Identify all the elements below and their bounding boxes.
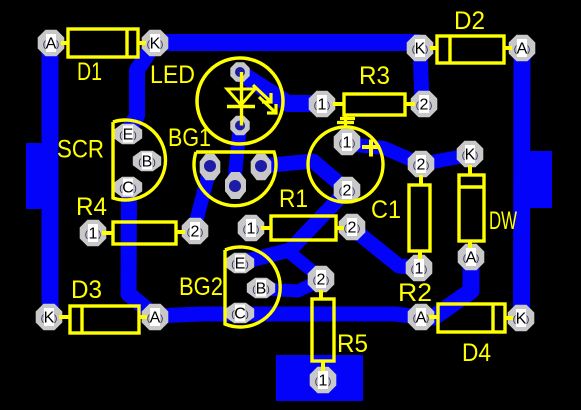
pad SCR C: [114, 177, 142, 197]
svg-text:2: 2: [420, 97, 429, 114]
wire R5 pin2 to BG2 B: [262, 280, 321, 291]
pin label R5 2: [316, 270, 326, 288]
wire top rail D1K to D2K: [154, 34, 420, 51]
resistor R5 body: [312, 299, 334, 361]
node bottom tab: [276, 355, 363, 401]
LED arrow 2: [259, 97, 276, 113]
node left edge tab: [26, 143, 50, 209]
wire C1 pin1 to R2 pin2: [347, 144, 421, 164]
wire C1 pin2 to BG2 E: [239, 190, 347, 263]
svg-text:): ): [267, 284, 270, 295]
pin label SCR B: [142, 153, 152, 170]
LED outline circle: [197, 58, 283, 144]
svg-text:BG2: BG2: [179, 273, 223, 301]
svg-text:E: E: [235, 256, 246, 273]
svg-text:): ): [426, 160, 429, 171]
wire bottom rail D3A to D4A: [155, 314, 421, 317]
svg-text:A: A: [150, 310, 161, 327]
pad D2 K: [407, 35, 434, 62]
capacitor C1 top mark: [337, 115, 355, 128]
svg-text:): ): [134, 183, 137, 194]
svg-text:D3: D3: [71, 276, 102, 304]
svg-text:A: A: [466, 250, 477, 267]
svg-text:2: 2: [317, 272, 326, 289]
pin label DW A: [466, 248, 476, 266]
svg-text:): ): [160, 39, 163, 50]
svg-text:): ): [327, 100, 330, 111]
pad BG1 right: [251, 154, 272, 180]
pad R3 2: [411, 91, 438, 118]
zener DW body: [459, 175, 484, 241]
svg-text:): ): [527, 44, 530, 55]
resistor R1 body: [271, 216, 336, 240]
svg-text:): ): [54, 313, 57, 324]
silkscreen labels: [57, 7, 517, 367]
diode D1 body: [68, 29, 138, 57]
wire DW A to D4 A: [421, 258, 471, 317]
resistor R2 body: [409, 185, 430, 251]
pin label BG2 C: [235, 305, 245, 322]
svg-text:1: 1: [89, 226, 98, 243]
pad LED cathode: [230, 116, 249, 135]
svg-text:2: 2: [417, 157, 426, 174]
pad BG2 B: [247, 278, 275, 298]
svg-text:A: A: [46, 36, 57, 53]
LED diode symbol: [240, 72, 243, 126]
pin label R4 1: [88, 224, 98, 242]
pad D3 A: [142, 304, 169, 331]
svg-text:B: B: [142, 154, 153, 171]
diode D3 body: [70, 306, 139, 333]
pad R4 2: [182, 218, 209, 245]
pad R1 2: [339, 214, 366, 241]
svg-text:2: 2: [343, 183, 352, 200]
svg-text:C: C: [234, 306, 246, 323]
svg-text:): ): [426, 313, 429, 324]
pad D4 K: [508, 305, 535, 332]
svg-text:K: K: [44, 310, 55, 327]
svg-text:K: K: [415, 41, 426, 58]
svg-text:): ): [256, 224, 259, 235]
pin label D2 A: [517, 39, 527, 57]
svg-text:): ): [526, 314, 529, 325]
pad R2 1: [406, 255, 433, 282]
pads: gray octagons: [36, 30, 536, 394]
svg-text:): ): [246, 259, 249, 270]
capacitor C1 plus mark: [362, 140, 380, 157]
pin label R3 2: [419, 95, 429, 113]
pad R5 1: [310, 367, 337, 394]
svg-text:): ): [98, 229, 101, 240]
svg-text:1: 1: [415, 261, 424, 278]
svg-text:): ): [424, 264, 427, 275]
pin label R2 2: [416, 155, 426, 173]
capacitor C1 outline: [308, 127, 383, 202]
svg-text:BG1: BG1: [168, 124, 211, 152]
svg-text:2: 2: [191, 224, 200, 241]
svg-text:A: A: [416, 310, 427, 327]
wire SCR C down to D3 A: [129, 188, 156, 316]
svg-text:): ): [425, 44, 428, 55]
pad SCR E: [114, 124, 142, 144]
wire C1-BG2E branch to R5 pin2: [289, 252, 322, 279]
svg-text:R4: R4: [76, 193, 107, 221]
pad DW K: [457, 141, 484, 168]
transistor BG1 outline: [194, 152, 276, 206]
drill holes: [204, 67, 267, 192]
pad LED anode: [230, 62, 249, 81]
pin label R3 1: [317, 95, 327, 113]
svg-text:1: 1: [343, 135, 352, 152]
pin label R4 2: [190, 222, 200, 240]
wire BG1 right pad to C1 pin2: [261, 161, 347, 190]
svg-text:E: E: [123, 127, 134, 144]
svg-text:): ): [476, 253, 479, 264]
wire right rail D2A to D4K: [513, 48, 531, 318]
pad R4 1: [80, 220, 107, 247]
wire D2K to R3 pin2: [420, 48, 422, 103]
hole BG1 center: [229, 180, 241, 192]
svg-text:): ): [475, 150, 478, 161]
svg-text:): ): [352, 138, 355, 149]
wire BG1 left pad to R4 pin2: [195, 168, 210, 231]
pin label SCR C: [123, 179, 133, 196]
hole LED anode: [235, 67, 245, 77]
pin label BG2 B: [256, 280, 266, 297]
diode D2 body: [437, 36, 504, 63]
pin label R1 2: [347, 218, 357, 236]
pin label D4 A: [416, 308, 426, 326]
svg-text:1: 1: [318, 97, 327, 114]
svg-text:): ): [429, 100, 432, 111]
svg-text:K: K: [150, 36, 161, 53]
svg-text:1: 1: [247, 221, 256, 238]
pin label D3 A: [150, 308, 160, 326]
wire R2 pin2 to DW K: [421, 155, 470, 164]
svg-text:C: C: [122, 180, 134, 197]
node right edge tab: [522, 151, 552, 208]
pad BG1 center: [225, 172, 246, 199]
svg-text:): ): [134, 130, 137, 141]
wire R1 pin2 to R2 pin1: [352, 228, 419, 268]
svg-text:K: K: [516, 311, 527, 328]
pin label C1 2: [342, 181, 352, 199]
svg-text:R2: R2: [398, 279, 432, 307]
pin label D4 K: [516, 309, 526, 327]
svg-text:): ): [160, 313, 163, 324]
pad DW A: [458, 244, 485, 271]
pin label R1 1: [246, 219, 256, 237]
svg-text:SCR: SCR: [57, 136, 104, 164]
svg-text:K: K: [465, 147, 476, 164]
svg-text:R1: R1: [279, 185, 308, 213]
pin label D1 K: [150, 34, 160, 52]
silkscreen: [59, 29, 513, 371]
svg-text:A: A: [517, 41, 528, 58]
pad D3 K: [36, 304, 63, 331]
pin label D3 K: [44, 308, 54, 326]
pad BG2 C: [226, 303, 254, 323]
svg-text:2: 2: [348, 220, 357, 237]
hole BG1 left: [204, 160, 216, 172]
pin label D1 A: [46, 34, 56, 52]
wire LED cathode to BG1 center pad: [234, 125, 240, 185]
svg-text:): ): [328, 376, 331, 387]
wire LED anode to R3 pin1: [240, 73, 322, 104]
pad R5 2: [308, 266, 335, 293]
wire D1K to SCR E: [128, 44, 154, 131]
pad BG2 E: [226, 253, 254, 273]
svg-text:D2: D2: [454, 7, 485, 35]
svg-text:): ): [246, 309, 249, 320]
transistor BG2 outline: [225, 247, 280, 327]
pin label DW K: [465, 145, 475, 163]
svg-text:): ): [153, 157, 156, 168]
pad C1 1: [334, 129, 361, 156]
wire left rail D1A to D3K: [42, 43, 59, 318]
hole LED cathode: [235, 121, 245, 131]
pad R2 2: [408, 151, 435, 178]
svg-text:D4: D4: [462, 339, 491, 367]
pad D4 A: [408, 304, 435, 331]
svg-text:): ): [326, 275, 329, 286]
svg-text:1: 1: [319, 373, 328, 390]
thyristor SCR outline: [113, 120, 165, 200]
pin label C1 1: [342, 133, 352, 151]
pin label R5 1: [318, 371, 328, 389]
pad R3 1: [309, 91, 336, 118]
pad D1 A: [38, 30, 65, 57]
pad SCR B: [133, 151, 161, 171]
LED arrow 1: [253, 85, 271, 102]
resistor R4 body: [113, 222, 176, 244]
svg-text:R3: R3: [359, 62, 390, 90]
pin label R2 1: [414, 259, 424, 277]
resistor R3 body: [344, 94, 405, 115]
pin label SCR E: [123, 126, 133, 143]
hole BG1 right: [255, 160, 267, 172]
pad R1 1: [238, 215, 265, 242]
svg-text:DW: DW: [489, 207, 517, 235]
svg-text:D1: D1: [77, 58, 102, 86]
pad D1 K: [142, 30, 169, 57]
svg-text:R5: R5: [337, 330, 368, 358]
diode D4 body: [438, 304, 505, 332]
pad D2 A: [509, 35, 536, 62]
pin label BG2 E: [235, 255, 245, 272]
svg-text:): ): [56, 39, 59, 50]
svg-text:LED: LED: [150, 61, 195, 89]
pad name plates: [41, 34, 531, 390]
svg-text:C1: C1: [371, 196, 401, 224]
svg-text:): ): [357, 223, 360, 234]
svg-text:): ): [352, 186, 355, 197]
pad BG1 left: [200, 154, 221, 180]
svg-text:B: B: [256, 281, 267, 298]
pin label D2 K: [415, 39, 425, 57]
svg-text:): ): [200, 227, 203, 238]
pad C1 2: [334, 177, 361, 204]
